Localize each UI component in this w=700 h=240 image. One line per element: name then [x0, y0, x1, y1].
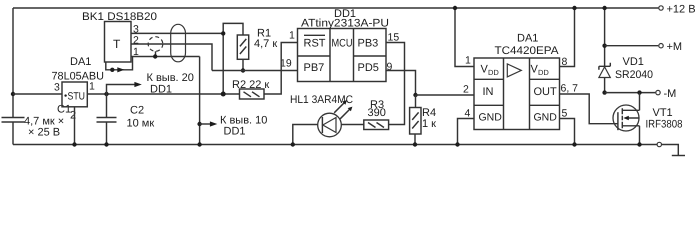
shield symbol on data wire	[148, 37, 163, 52]
wire GND pin4	[458, 119, 475, 145]
svg-text:C2: C2	[130, 105, 144, 117]
wire BK1 bottom loop	[106, 57, 133, 70]
svg-text:HL1 3AR4MC: HL1 3AR4MC	[290, 94, 353, 106]
node pin4 ground junction	[455, 142, 459, 146]
wire R3 to LED	[341, 124, 364, 126]
svg-text:PB7: PB7	[304, 62, 325, 74]
svg-text:-M: -M	[664, 88, 677, 100]
node shield junction	[153, 54, 157, 58]
wire C2 lower	[106, 122, 108, 145]
svg-text:SR2040: SR2040	[615, 69, 653, 81]
node source ground junction	[637, 142, 641, 146]
svg-text:1: 1	[89, 81, 95, 93]
arrow to pin 10 DD1	[210, 121, 217, 126]
svg-text:GND: GND	[479, 112, 503, 124]
node pin5 ground junction	[572, 142, 576, 146]
wire BK1 pin 3 (+5V)	[131, 32, 223, 34]
wire R1 bottom lead	[242, 59, 244, 70]
mosfet driver DA1 TC4420EPA	[474, 33, 560, 130]
node R1 DQ junction	[241, 68, 245, 72]
svg-text:TC4420EPA: TC4420EPA	[495, 45, 560, 57]
wire +5V output	[87, 93, 239, 95]
wire source to ground	[639, 126, 641, 145]
wire +M line	[605, 45, 659, 47]
node input junction	[11, 92, 15, 96]
wire -M line	[605, 92, 656, 94]
capacitor C2	[97, 105, 155, 130]
svg-text:BK1 DS18B20: BK1 DS18B20	[82, 11, 157, 23]
wire diode to -M line	[604, 78, 606, 93]
svg-text:DD1: DD1	[224, 125, 246, 137]
wire LED cathode to ground	[293, 125, 318, 145]
node diode -M junction	[602, 90, 606, 94]
svg-text:10 мк: 10 мк	[127, 118, 155, 130]
resistor R2	[232, 79, 269, 99]
terminal +M	[659, 44, 663, 48]
wire R4 bottom lead	[414, 134, 416, 145]
wire to chassis ground	[662, 145, 679, 156]
svg-text:1: 1	[289, 30, 295, 42]
wire shield to ground	[155, 51, 157, 56]
svg-text:DA1: DA1	[517, 33, 538, 45]
node rail pin8 junction	[572, 6, 576, 10]
wire C2 upper	[106, 94, 108, 118]
node +M junction	[602, 44, 606, 48]
svg-text:DD: DD	[538, 68, 549, 77]
wire to regulator pin 3	[13, 93, 62, 95]
wire left rail lower	[12, 122, 14, 145]
wire BK1 pin 1 ground	[131, 56, 200, 58]
wire +12V down to diode	[604, 8, 606, 66]
svg-text:5: 5	[562, 108, 568, 120]
wire R4 top lead	[415, 95, 417, 108]
node +5V R2 junction	[221, 92, 226, 97]
svg-text:GND: GND	[534, 112, 558, 124]
svg-text:T: T	[113, 37, 121, 51]
node C2 ground junction	[104, 142, 108, 146]
terminal +12V	[659, 6, 663, 10]
node LED ground junction	[291, 142, 295, 146]
svg-text:1 к: 1 к	[422, 118, 436, 130]
wire input junction to IN pin	[416, 94, 475, 96]
wire R2 to RST	[264, 43, 298, 95]
node drain junction	[637, 90, 641, 94]
node pin2 ground junction	[72, 142, 76, 146]
arrow to pin 20 DD1	[134, 82, 141, 87]
wire left rail upper	[12, 8, 14, 118]
node BK1 bottom junction	[110, 68, 114, 72]
node rail pin1 junction	[453, 6, 457, 10]
svg-text:DD1: DD1	[150, 83, 172, 95]
wire VDD pin1 from +12V rail	[455, 8, 474, 67]
svg-text:1: 1	[465, 55, 471, 67]
svg-text:4: 4	[465, 108, 471, 120]
wire regulator pin 2 to ground	[74, 107, 76, 145]
arrow on BK1 bottom wire	[117, 67, 124, 72]
resistor R1	[237, 28, 277, 60]
wire DQ to PB7	[212, 70, 298, 72]
svg-text:STU: STU	[68, 90, 86, 102]
wire ground down	[199, 57, 201, 145]
wire arrow branch to pin 10	[200, 123, 212, 125]
node driver input junction	[413, 93, 417, 97]
svg-text:PD5: PD5	[358, 62, 379, 74]
wire bottom ground rail	[13, 144, 657, 146]
node ground rail junction	[197, 142, 201, 146]
node ground branch	[197, 122, 201, 126]
wire top +12V rail	[13, 7, 658, 9]
wire +5V vertical to R1	[223, 23, 243, 94]
svg-text:PB3: PB3	[358, 38, 379, 50]
svg-text:DD: DD	[488, 68, 499, 77]
terminal -M	[656, 90, 660, 94]
resistor R3	[364, 99, 389, 130]
wire +5V branch up	[107, 85, 137, 95]
svg-text:DA1: DA1	[70, 56, 91, 68]
voltage regulator DA1 78L05ABU	[52, 56, 105, 107]
node rail diode junction	[602, 6, 606, 10]
wire GND pin5	[560, 119, 575, 145]
svg-text:VT1: VT1	[653, 107, 673, 119]
wire drain	[639, 93, 641, 111]
schottky diode VD1 SR2040	[599, 56, 653, 81]
svg-text:R2 22 к: R2 22 к	[232, 79, 269, 91]
cable ellipse	[171, 24, 186, 62]
svg-text:390: 390	[368, 107, 386, 119]
svg-text:MCU: MCU	[332, 38, 353, 50]
resistor R4	[410, 107, 437, 134]
svg-text:VD1: VD1	[623, 56, 644, 68]
capacitor C1	[2, 104, 72, 139]
svg-text:+M: +M	[667, 41, 683, 53]
svg-text:6, 7: 6, 7	[561, 83, 579, 95]
svg-text:3: 3	[54, 82, 60, 94]
node R4 ground junction	[413, 142, 417, 146]
wire OUT to gate	[560, 94, 618, 124]
ground	[672, 155, 685, 157]
svg-text:ATtiny2313A-PU: ATtiny2313A-PU	[301, 18, 389, 30]
svg-text:IN: IN	[483, 86, 494, 98]
svg-text:C1: C1	[57, 104, 71, 116]
mosfet VT1 IRF3808	[613, 105, 683, 131]
svg-text:OUT: OUT	[534, 86, 558, 98]
svg-text:К выв. 20: К выв. 20	[147, 72, 194, 84]
LED HL1 3AR4MC	[290, 94, 353, 137]
terminal common	[657, 142, 661, 146]
microcontroller DD1 ATtiny2313A-PU	[298, 8, 390, 82]
wire PD5 to driver input	[386, 71, 416, 96]
wire BK1 pin 2 data DQ	[131, 44, 212, 71]
svg-text:2: 2	[463, 84, 469, 96]
svg-text:RST: RST	[304, 38, 326, 50]
temperature sensor BK1 DS18B20	[82, 11, 157, 62]
svg-text:4,7 к: 4,7 к	[254, 38, 277, 50]
svg-text:15: 15	[388, 32, 400, 44]
node +5V pin3 junction	[221, 31, 225, 35]
wire VDD pin8 to +12V rail	[560, 8, 575, 67]
wire PB3 to LED chain	[386, 43, 405, 125]
node +5V junction at C2	[104, 92, 108, 96]
svg-text:× 25 В: × 25 В	[28, 127, 60, 139]
svg-text:+12 В: +12 В	[667, 4, 696, 16]
svg-text:IRF3808: IRF3808	[646, 118, 683, 130]
